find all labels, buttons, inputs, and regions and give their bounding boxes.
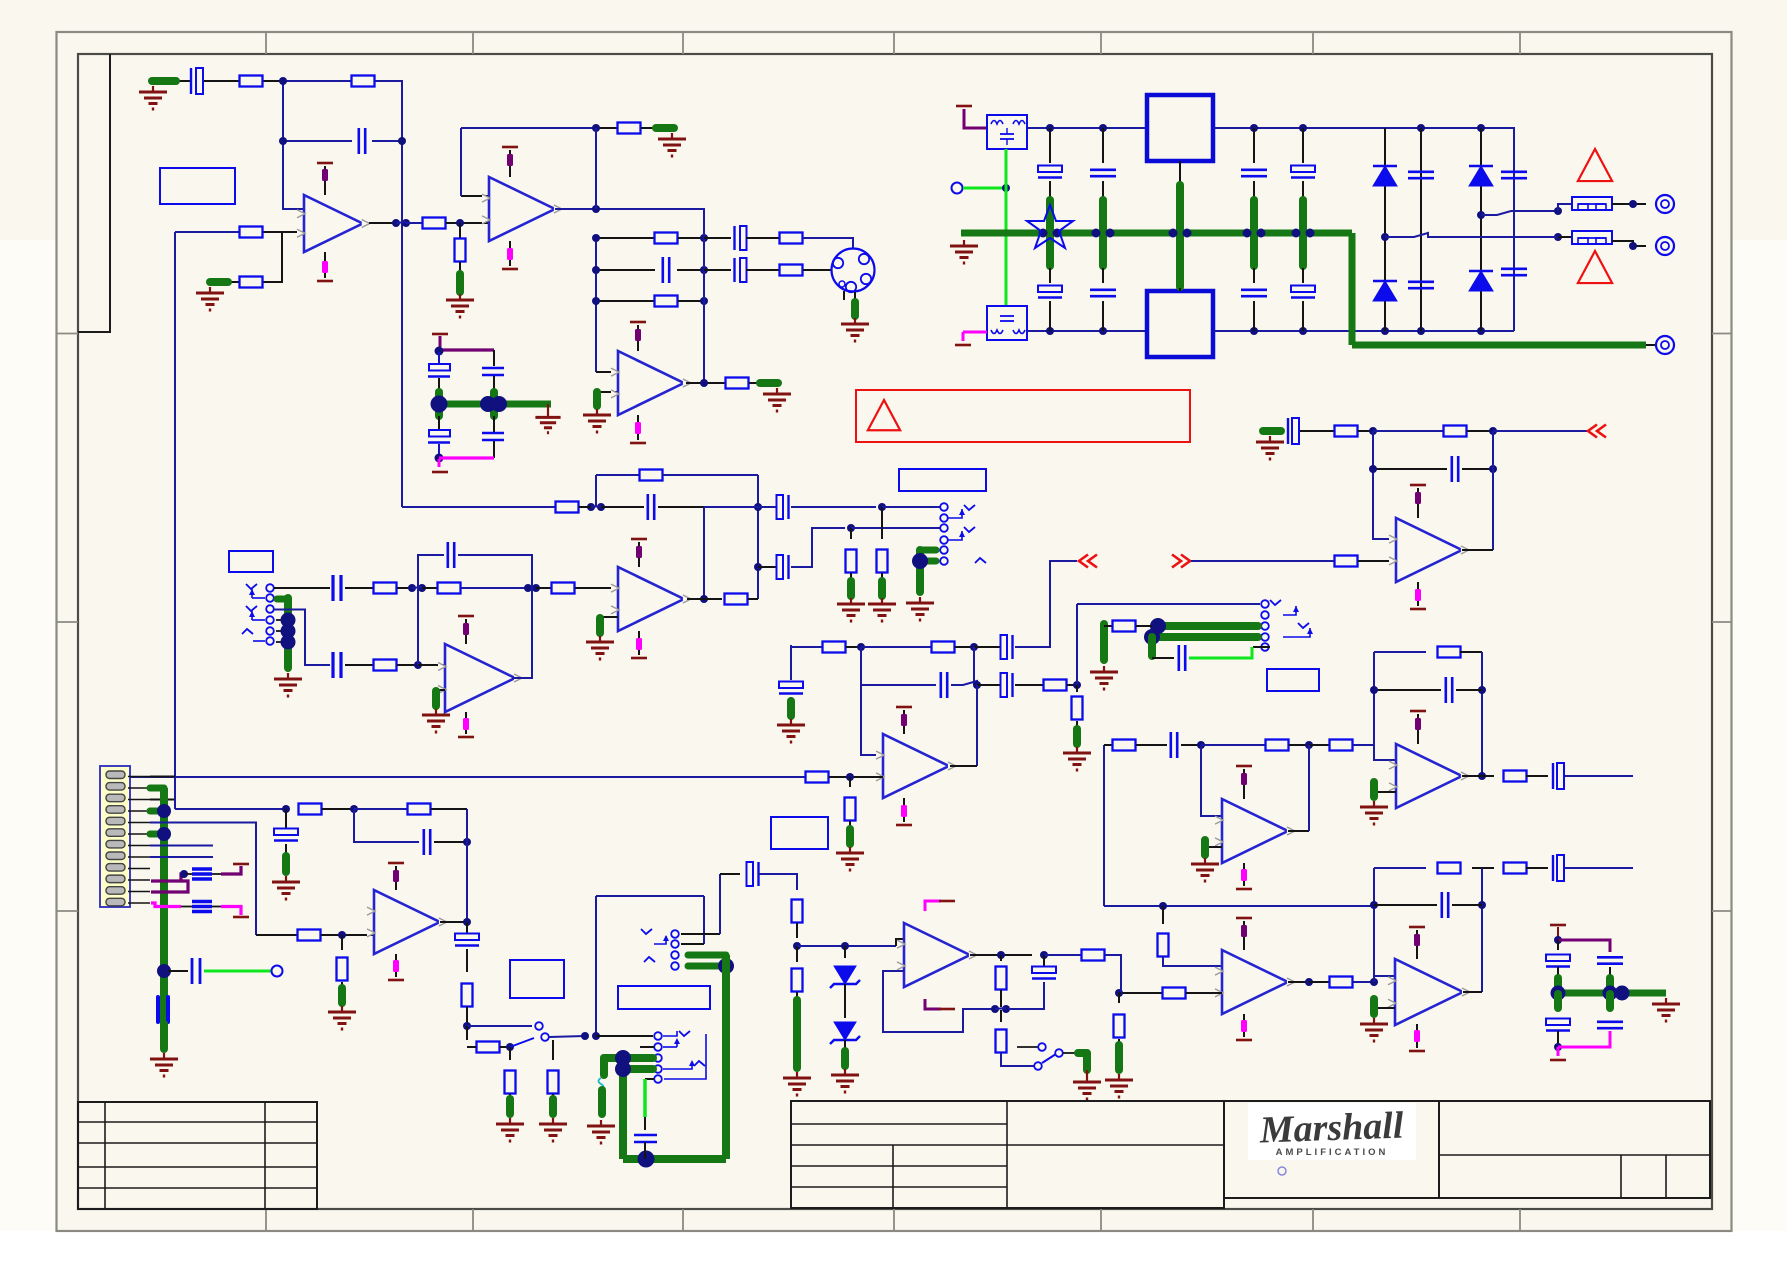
op-amp U12 [374, 890, 440, 954]
wire C21 loop right [458, 555, 532, 588]
wire R2 to U1 in- [262, 231, 304, 233]
net stub green J5 [688, 952, 726, 959]
revision table [78, 1102, 317, 1209]
wire R55 right [500, 1046, 510, 1048]
wire U9 in- lead [1205, 846, 1222, 848]
power stub magenta U1 [322, 261, 328, 273]
junction U7 fb right [1489, 427, 1497, 435]
power bar U11 V- [1409, 1050, 1425, 1053]
junction decoupling bus [431, 396, 448, 413]
wire to C32 [1373, 468, 1447, 470]
resistor R42 [1438, 647, 1461, 658]
resistor R56 [505, 1071, 516, 1094]
power stub purple U11 [1414, 934, 1420, 946]
wire C35 out [1565, 775, 1633, 777]
net stub gnd R28 [878, 581, 886, 596]
resistor R48 [1438, 863, 1461, 874]
power pin U10 V- [1243, 1014, 1245, 1037]
ground GND14 [919, 597, 921, 603]
wire decoupling leads low [438, 416, 440, 431]
jack J2 pin 5 [266, 627, 274, 635]
connector pin leads [128, 776, 150, 778]
net stub input gnd [152, 77, 176, 85]
wire fb left vertical [595, 475, 597, 507]
junction node B kink [408, 584, 416, 592]
wire bus to terminal [1646, 344, 1656, 346]
capacitor C10 top [1038, 166, 1062, 173]
capacitor C24 [777, 495, 784, 519]
wire R36 to U7 in- [1358, 560, 1396, 562]
resistor R53 [408, 804, 431, 815]
wire col 11 mid1 [1102, 181, 1104, 198]
wire node V down [509, 1047, 511, 1060]
wire C42 bright green [204, 970, 271, 973]
wire snubber bottom left [1557, 1031, 1559, 1045]
capacitor C29 [1001, 673, 1008, 697]
terminal circle C42 [272, 966, 283, 977]
net stub gnd C26 [787, 701, 795, 716]
polyswitch cyan mark [599, 1078, 604, 1090]
connector CON1 pin 1 [106, 771, 125, 779]
power bar U5 V+ [458, 615, 474, 618]
wire col 10 mid2 [1049, 268, 1051, 283]
power bar U7 V- [1410, 608, 1426, 611]
capacitor C17 [1501, 267, 1527, 270]
power bar U4 V- [631, 657, 647, 660]
wire R46 gnd lead [1118, 1039, 1120, 1044]
resistor R11 [780, 265, 803, 276]
op-amp U10 [1222, 950, 1288, 1014]
net stub gnd R46 [1115, 1045, 1123, 1070]
power bar U10 V- [1236, 1039, 1252, 1042]
power bar magenta CON1 [233, 916, 249, 919]
capacitor C46 [455, 934, 479, 941]
wire C36 right [1452, 904, 1482, 906]
wire decoupling leads top [438, 352, 440, 364]
junction C34 [1370, 686, 1378, 694]
wire to C34 [1374, 689, 1441, 691]
net stub gnd C31 [1263, 427, 1281, 435]
terminal circle mains [952, 183, 963, 194]
net stub green decoupling right [490, 392, 498, 416]
wire R42 right [1460, 651, 1482, 653]
wire C48 down [1008, 982, 1044, 1009]
power pin U6 V- [903, 798, 905, 822]
junction node D [414, 661, 422, 669]
net stub green CON1 bottom [160, 1024, 168, 1049]
power bar U2 V+ [502, 146, 518, 149]
wire node X down [844, 946, 846, 958]
wire out to R49 [1482, 867, 1494, 869]
wire R27 gnd lead [850, 573, 852, 580]
op-amp U8 [1396, 744, 1462, 808]
wire top to diode column [1385, 128, 1514, 165]
wire gnd stub to R3 [228, 281, 240, 283]
junction snubber top [1554, 936, 1562, 944]
resistor R23 [374, 660, 397, 671]
wire R10 to connector [803, 238, 853, 249]
resistor R40 [1266, 740, 1289, 751]
wire J2 ring to C22 [274, 610, 330, 666]
capacitor C20 input coupling [331, 575, 334, 601]
wire snubber magenta [1558, 1031, 1610, 1047]
wire C47 to R58 [758, 874, 797, 890]
wire snubber left top [1557, 940, 1559, 950]
wire node P down [1118, 993, 1120, 1003]
power bar U1 V+ [317, 162, 333, 165]
wire R43 to C35 [1526, 775, 1548, 777]
jack J2 pin 1 [266, 584, 274, 592]
wire T2 right bottom [1213, 330, 1514, 332]
wire to C24 [704, 506, 776, 508]
power stub magenta U11 [1414, 1030, 1420, 1042]
ground GND23 [1373, 1018, 1375, 1024]
resistor R49 [1504, 863, 1527, 874]
wire U2 out [555, 209, 704, 238]
wire col 12 mid1 [1253, 181, 1255, 198]
power stub magenta U12 [393, 960, 399, 972]
wire J2 pin leads [276, 619, 284, 621]
resistor R9 [655, 296, 678, 307]
resistor R7 [618, 123, 641, 134]
wire U11 fb left [1373, 868, 1375, 976]
wire C22 to R23 [345, 664, 373, 666]
wire node T to R53 [354, 808, 407, 810]
capacitor C39 [1597, 956, 1623, 959]
wire C23 right [658, 506, 704, 508]
power bar U1 V- [317, 280, 333, 283]
power bar mains N [955, 344, 971, 347]
wire U5 out up [512, 588, 532, 678]
power bar snubber V- [1550, 1059, 1566, 1062]
junction U12 fb [463, 838, 471, 846]
power pin U6 V+ [903, 710, 905, 734]
wire row2 to C28 [861, 684, 936, 686]
op-amp U4 [618, 567, 684, 631]
resistor R41 [1330, 740, 1353, 751]
fuse F1 [1572, 197, 1612, 210]
capacitor C35 [1552, 763, 1554, 789]
ground GND33 [600, 1120, 602, 1126]
junction col 11 [1092, 229, 1101, 238]
wire U3 in- lead [597, 391, 618, 393]
junction J6 in [581, 1032, 589, 1040]
net stub gnd R56 [506, 1099, 514, 1114]
EMI filter FL2 [987, 306, 1027, 340]
wire F2 to terminal [1612, 241, 1646, 246]
wire U7 out vertical [1492, 431, 1494, 550]
capacitor C1 (polarized input) [190, 68, 192, 94]
power pin U10 V+ [1243, 921, 1245, 950]
wire R35 to bus [1136, 625, 1152, 627]
connector CON1 pin 4 [106, 806, 125, 814]
power bar purple CON1 [233, 863, 249, 866]
ground GND12 [850, 598, 852, 604]
capacitor C13 bot [1291, 286, 1315, 293]
junction node T [350, 805, 358, 813]
ground GND3 [459, 294, 461, 300]
capacitor C45 [422, 829, 425, 855]
wire node C to R22 [536, 587, 551, 589]
switch contact SW1 [535, 1022, 543, 1030]
power stub magenta U3 [635, 422, 641, 434]
wire J5 tip up [719, 874, 721, 934]
wire pin5 down [150, 823, 256, 936]
wire U8 in- lead [1374, 791, 1396, 793]
capacitor C3 [661, 257, 664, 283]
resistor R21 [438, 583, 461, 594]
wire J2 tip to C20 [274, 587, 330, 589]
net stub connector gnd [851, 302, 859, 316]
junction node P [1115, 989, 1123, 997]
ground GND28 [509, 1118, 511, 1124]
ground GND32 [1086, 1076, 1088, 1082]
wire pin12 magenta [151, 903, 181, 907]
op-amp U9 [1222, 799, 1288, 863]
wire to U3 in+ [596, 371, 618, 373]
junction node V [506, 1043, 514, 1051]
power bar U6 V- [896, 824, 912, 827]
power pin U3 V+ [637, 325, 639, 351]
wire connector gnd lead [854, 292, 856, 300]
wire bar to R35 [1104, 625, 1112, 627]
wire pin5 to R50 [256, 934, 297, 936]
capacitor C50 [429, 364, 450, 371]
wire to C25 [758, 566, 776, 568]
jack J5 pin 3 [671, 951, 679, 959]
wire R30 right [955, 646, 974, 648]
net stub snubber right [1606, 978, 1614, 992]
junction col 13 [1292, 229, 1301, 238]
capacitor C30 [1178, 645, 1181, 671]
junction U1 out kink [392, 219, 400, 227]
resistor R58 [792, 900, 803, 923]
label box JK2 [229, 551, 273, 572]
wire U11 fb right [1481, 868, 1483, 992]
power bar U12 V+ [388, 862, 404, 865]
wire C26 column top [790, 645, 792, 680]
wire to R7 [596, 127, 618, 129]
wire R40 right [1289, 744, 1309, 746]
ground GND26 [341, 1006, 343, 1012]
wire fb to R42 [1374, 651, 1426, 653]
power bar U13 V+ [939, 900, 955, 903]
wire U7 out to net arrow [1493, 430, 1588, 432]
jack J5 pin 4 [671, 962, 679, 970]
resistor R34 [1072, 697, 1083, 720]
logo block frame [1224, 1101, 1439, 1198]
wire C34 right [1456, 689, 1482, 691]
ground bus GNDPWR [961, 230, 1352, 237]
wire fb mid vertical [703, 507, 705, 599]
ground GND20 [1373, 801, 1375, 807]
resistor R24 kink [556, 502, 579, 513]
star ground symbol [1027, 205, 1073, 248]
capacitor C41 [1597, 1020, 1623, 1023]
op-amp U1 [304, 195, 363, 252]
resistor R54 [462, 984, 473, 1007]
wire row to R29 [791, 646, 822, 648]
wire to C4 [704, 237, 731, 239]
label box FX [771, 817, 828, 849]
jack J3 pin 2 [940, 514, 948, 522]
wire to R55 [467, 1046, 476, 1048]
connector CON1 pin 5 [106, 817, 125, 825]
net stub green SW4 [1078, 1053, 1087, 1070]
wire R11 to connector [803, 269, 832, 271]
resistor R51 [337, 958, 348, 981]
wire node K up to J4 [1076, 604, 1078, 685]
junction node I [970, 643, 978, 651]
jack J6 pin 2 [654, 1043, 662, 1051]
wire zener lead [844, 1040, 846, 1050]
power pin U1 V- [324, 252, 326, 278]
net stub green J4 bus2 [1152, 633, 1258, 641]
capacitor C40 [1546, 1019, 1570, 1026]
capacitor C33 [1170, 732, 1173, 758]
wire C24 to node F [791, 506, 876, 508]
jack J2 switch symbols [246, 584, 257, 589]
op-amp U5 [445, 644, 515, 712]
connector CON1 pin 10 [106, 875, 125, 883]
ground GND27 [285, 876, 287, 882]
net stub gnd R27 [847, 581, 855, 596]
capacitor C48 [1032, 967, 1056, 974]
net stub green J4 bus1 [1158, 622, 1258, 630]
ground GND16 [849, 847, 851, 853]
connector CON1 pin 3 [106, 794, 125, 802]
power pin U1 V+ [324, 166, 326, 195]
wire node K down [1076, 685, 1078, 692]
wire cap column C14 [1420, 128, 1422, 331]
wire U1 in- to R3 [262, 232, 282, 282]
wire col 13 bottom [1302, 301, 1304, 331]
net stub gnd center [1176, 185, 1184, 287]
wire fb to R38 [1373, 430, 1443, 432]
resistor R35 [1113, 621, 1136, 632]
wire row2 left [596, 269, 655, 271]
ground GND1 [209, 287, 211, 293]
wire purple to power bar [221, 866, 241, 874]
wire U13 out [970, 954, 1032, 956]
wire C38 lead [1557, 967, 1559, 978]
wire node B to R21 [422, 587, 437, 589]
net stub green bar J2 [284, 598, 292, 668]
power bar U5 V- [458, 736, 474, 739]
terminal circle out1 [1656, 195, 1674, 213]
wire node Q vertical [1373, 906, 1375, 982]
wire node F to J3 tip [882, 506, 940, 508]
wire R49 to C37 [1526, 867, 1548, 869]
resistor R22 [552, 583, 575, 594]
wire rect upper switch [1481, 211, 1558, 215]
wire R53 right [431, 808, 467, 810]
wire R28 gnd lead [881, 573, 883, 580]
power stub purple U8 [1415, 718, 1421, 730]
net stub gnd U11 [1370, 999, 1378, 1014]
wire col 10 bottom [1049, 301, 1051, 331]
resistor R46 [1114, 1015, 1125, 1038]
junction U10 out [1305, 978, 1313, 986]
power pin U11 V- [1416, 1024, 1418, 1048]
jack J3 pin 3 [940, 524, 948, 532]
power pin U11 V+ [1416, 930, 1418, 959]
wire R56 gnd lead [509, 1094, 511, 1098]
ground GND25 [163, 1053, 165, 1059]
wire green vertical [1005, 149, 1008, 306]
jack J6 pin 1 [654, 1032, 662, 1040]
resistor R62 [996, 1030, 1007, 1053]
capacitor C51 [482, 367, 504, 369]
jack J3 pin 4 [940, 536, 948, 544]
wire mains purple [964, 109, 987, 128]
net stub GND R6 [456, 274, 464, 292]
wire pin1 to bus [150, 776, 175, 778]
capacitor C2 feedback [357, 128, 360, 154]
wire node I down [973, 647, 975, 685]
capacitor C10 bot [1038, 286, 1062, 293]
wire R29 right [846, 646, 861, 648]
net stub gnd col 12 [1250, 200, 1258, 266]
capacitor C11 top [1090, 169, 1116, 172]
op-amp U2 [489, 177, 555, 241]
power stub purple U4 [636, 546, 642, 558]
wire C4 to R10 [746, 237, 779, 239]
power bar mains L [956, 105, 972, 108]
jack J5 switch symbols [641, 929, 652, 934]
wire U2 feedback left [460, 128, 462, 196]
resistor R50 [298, 930, 321, 941]
wire node A to C2 [283, 140, 352, 142]
wire U2 feedback top [461, 127, 596, 129]
junction node M [1197, 741, 1205, 749]
junction node R [338, 931, 346, 939]
resistor R5 [423, 218, 446, 229]
junction supply top row [1046, 124, 1054, 132]
net stub gnd col 11 [1099, 200, 1107, 266]
title block right section [1439, 1101, 1710, 1198]
label box J3 [899, 469, 986, 491]
junction filter rows [592, 234, 600, 242]
wire node D to U5 in+ [418, 664, 445, 666]
junction J4 green [1150, 618, 1166, 634]
wire C2 to feedback [372, 140, 402, 142]
capacitor C43 vertical plates [156, 997, 160, 1022]
wire R12 to gnd stub [749, 382, 760, 384]
diode D4 [1469, 271, 1493, 291]
jack J4 switch symbols [1270, 600, 1281, 605]
connector CON1 pin 9 [106, 864, 125, 872]
junction node A [279, 77, 287, 85]
wire F1 to terminal [1612, 203, 1646, 205]
wire U2 feedback down [595, 128, 597, 209]
ground GND22 [1118, 1074, 1120, 1080]
power bar snubber V+ [1550, 924, 1566, 927]
net stub gnd J6 [598, 1090, 606, 1114]
net stub gnd zener [841, 1051, 849, 1066]
wire C32 right [1462, 468, 1493, 470]
net stub gnd R51 [338, 988, 346, 1003]
switch SW4 contact stub [1017, 1046, 1038, 1048]
capacitor C4 [733, 226, 735, 250]
junction decoupling bottom [435, 454, 444, 463]
op-amp U3 [618, 351, 684, 415]
wire C30 bright green [1189, 647, 1252, 658]
wire node G to J3 ring [851, 527, 940, 529]
ground GND18 [1103, 666, 1105, 672]
wire pin11 purple [151, 881, 188, 892]
wire R26 right [748, 598, 758, 600]
